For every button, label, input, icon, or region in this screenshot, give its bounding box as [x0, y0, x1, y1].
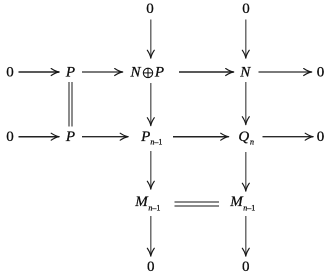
identity P = P (vertical double line)	[69, 82, 72, 127]
svg-text:M: M	[134, 194, 149, 210]
arrow 0 -> P row1	[19, 71, 60, 73]
svg-text:n–1: n–1	[150, 138, 162, 147]
svg-text:n–1: n–1	[243, 203, 255, 212]
node Qn row2	[238, 129, 254, 147]
svg-text:0: 0	[6, 64, 14, 80]
arrow 0 -> N (vertical col2 top)	[245, 20, 247, 59]
identity Mn-1 = Mn-1 (horizontal double line)	[175, 202, 220, 206]
svg-text:P: P	[65, 64, 75, 80]
svg-text:P: P	[154, 64, 164, 80]
arrow Mn-1 -> 0 (vertical col1 bottom)	[150, 216, 152, 256]
node Pn-1 row2	[140, 129, 162, 147]
arrow N+P -> N row1	[179, 71, 234, 73]
svg-text:P: P	[65, 129, 75, 145]
svg-text:0: 0	[147, 259, 155, 274]
arrow N -> Qn (vertical col2)	[245, 82, 247, 125]
node Mn-1 row3 right	[229, 194, 255, 212]
node Mn-1 row3 left	[134, 194, 160, 212]
svg-text:M: M	[229, 194, 244, 210]
arrow 0 -> N+P (vertical col1 top)	[150, 20, 152, 59]
arrow 0 -> P row2	[19, 136, 60, 138]
arrow N+P -> Pn-1 (vertical col1)	[150, 83, 152, 126]
svg-text:n–1: n–1	[148, 203, 160, 212]
svg-text:0: 0	[146, 1, 154, 17]
svg-text:0: 0	[317, 64, 325, 80]
arrow P -> N+P row1	[82, 71, 123, 73]
svg-text:0: 0	[242, 259, 250, 274]
svg-text:0: 0	[242, 1, 250, 17]
svg-text:0: 0	[317, 129, 325, 145]
svg-text:n: n	[250, 138, 254, 147]
arrow Qn -> Mn-1 (vertical col2)	[245, 152, 247, 191]
node N plus P row1	[129, 64, 164, 80]
svg-text:Q: Q	[238, 129, 249, 145]
svg-text:P: P	[140, 129, 150, 145]
arrow Qn -> 0 row2	[263, 136, 314, 138]
svg-text:N: N	[129, 64, 141, 80]
arrow Pn-1 -> Qn row2	[173, 136, 229, 138]
arrow Mn-1 -> 0 (vertical col2 bottom)	[245, 216, 247, 256]
svg-text:0: 0	[6, 129, 14, 145]
svg-text:N: N	[239, 64, 251, 80]
arrow P -> Pn-1 row2	[82, 136, 128, 138]
arrow N -> 0 row1	[259, 71, 312, 73]
arrow Pn-1 -> Mn-1 (vertical col1)	[150, 151, 152, 189]
